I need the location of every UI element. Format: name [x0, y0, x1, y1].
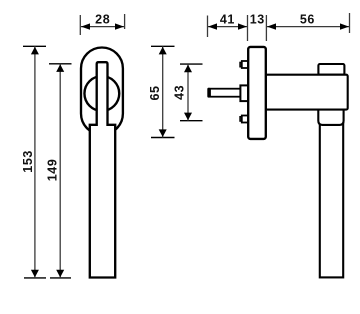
dimension 13/56 extension line (flange right)	[265, 15, 267, 41]
side view: bottom screw tab small step	[240, 117, 242, 121]
side view: bottom screw tab	[242, 116, 248, 123]
dimension 56 line	[267, 26, 349, 28]
dimension 28 line	[81, 26, 124, 28]
side view: grip upper section	[318, 110, 343, 125]
svg-text:65: 65	[148, 85, 162, 100]
dimension 153 tick bottom	[24, 277, 46, 279]
dimension 43 tick bottom	[180, 120, 203, 122]
dimension 65 tick top	[151, 45, 175, 47]
dimension 28 arrow right	[115, 23, 124, 29]
dimension 41 extension line (spindle tip)	[207, 16, 209, 38]
svg-text:13: 13	[250, 13, 265, 27]
dimension 28 arrow left	[81, 23, 90, 29]
dimension 41/13 extension line (flange left)	[247, 15, 249, 41]
svg-text:41: 41	[220, 13, 235, 27]
side view: body (horizontal arm)	[266, 75, 348, 110]
side view: top screw tab small step	[240, 63, 242, 67]
dimension 153 arrow down	[31, 270, 39, 278]
svg-text:43: 43	[173, 85, 187, 100]
dimension 28 extension line right	[124, 14, 126, 29]
handle front view: cap stadium outline	[81, 48, 123, 135]
dimension 43 arrow down	[184, 113, 192, 121]
dimension 149 line	[59, 64, 61, 278]
side view: grip top cap	[318, 64, 344, 75]
dimension 149 tick top	[49, 63, 72, 65]
side view: top screw tab	[242, 61, 248, 68]
side view: flange plate	[248, 47, 266, 139]
dimension 65 arrow down	[159, 129, 167, 137]
side view: grip lower bar	[320, 115, 343, 277]
dimension 65 line	[162, 46, 164, 137]
dimension 153 arrow up	[31, 47, 39, 55]
dimension 153 tick top	[23, 45, 46, 47]
handle front view: rosette circle	[84, 76, 119, 111]
dimension 28 extension line left	[79, 15, 81, 35]
dimension 41 line	[208, 26, 247, 28]
side view: spindle mounting block	[240, 85, 248, 101]
dimension 41 arrow right	[238, 23, 247, 29]
dimension 56 arrow right	[340, 23, 349, 29]
dimension 149 tick bottom	[50, 277, 71, 279]
dimension 43 line	[187, 64, 189, 121]
dimension 149 arrow up	[56, 64, 64, 72]
dimension 56 extension line right	[349, 13, 351, 33]
svg-text:153: 153	[21, 150, 35, 173]
svg-text:28: 28	[95, 13, 110, 27]
svg-text:56: 56	[300, 13, 315, 27]
dimension 56 arrow left	[267, 23, 276, 29]
svg-text:149: 149	[46, 159, 60, 182]
dimension 43 arrow up	[184, 65, 192, 73]
side view: spindle tip cap	[207, 88, 211, 98]
dimension 153 line	[34, 46, 36, 278]
handle front view: neck and lever shaft	[90, 62, 115, 277]
dimension 65 arrow up	[159, 47, 167, 55]
dimension 43 tick top	[180, 63, 203, 65]
dimension 41 arrow left	[208, 23, 217, 29]
dimension 65 tick bottom	[151, 137, 175, 139]
dimension 149 arrow down	[56, 270, 64, 278]
side view: spindle shaft	[209, 89, 241, 97]
